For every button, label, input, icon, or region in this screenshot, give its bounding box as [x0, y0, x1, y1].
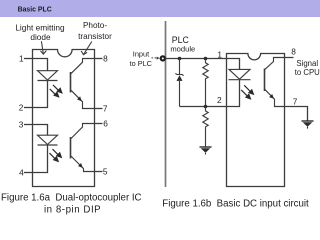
- svg-text:in 8-pin DIP: in 8-pin DIP: [44, 205, 101, 216]
- light arrows D2 to Q2: [50, 149, 62, 161]
- wire LED D1 cathode to pin2: [33, 81, 48, 108]
- svg-text:7: 7: [103, 103, 108, 113]
- wire LED D4 cathode to pin2: [227, 80, 240, 107]
- pin 5 stub and number: [95, 166, 108, 176]
- pin 8 stub and number: [95, 53, 109, 63]
- junction node A (zener tap): [178, 57, 182, 61]
- pin 7 stub and number: [95, 103, 108, 113]
- label: Photo-transistor: [78, 21, 112, 41]
- light arrows D1 to Q1: [50, 85, 62, 97]
- svg-text:7: 7: [293, 96, 298, 106]
- zener diode D3: [176, 59, 184, 107]
- svg-text:diode: diode: [30, 32, 51, 42]
- svg-text:Basic PLC: Basic PLC: [18, 7, 52, 14]
- dashed leader arrow to input terminal: [152, 57, 160, 60]
- svg-text:4: 4: [19, 167, 24, 177]
- svg-text:6: 6: [103, 118, 108, 128]
- phototransistor Q1: [71, 59, 95, 109]
- wire pin3 to LED D2 anode: [33, 125, 48, 136]
- ground G1: [200, 147, 212, 154]
- svg-text:1: 1: [19, 53, 24, 63]
- pin 3 stub and number: [19, 119, 33, 129]
- wire pin2 of U2 back to zener: [180, 106, 227, 108]
- svg-text:5: 5: [103, 166, 108, 176]
- resistor R1: [203, 59, 208, 107]
- ground G2: [302, 121, 314, 129]
- svg-text:to PLC: to PLC: [130, 59, 152, 68]
- svg-text:to CPU: to CPU: [295, 68, 320, 77]
- resistor R2: [203, 107, 208, 147]
- pin 2 stub and number: [19, 102, 33, 112]
- pin 1 stub and number: [19, 53, 33, 63]
- label: Input to PLC: [130, 50, 152, 69]
- svg-text:2: 2: [217, 95, 222, 105]
- IC U1 8-pin DIP outline with notch: [33, 50, 95, 187]
- leader arrow to phototransistor Q1: [81, 42, 92, 55]
- svg-text:Photo-: Photo-: [83, 21, 107, 30]
- pin 4 stub and number: [19, 167, 32, 177]
- svg-text:2: 2: [19, 102, 24, 112]
- svg-text:3: 3: [19, 119, 24, 129]
- LED D2: [38, 135, 58, 145]
- wire pin1 to LED D4 anode: [227, 59, 240, 70]
- svg-text:Figure 1.6b Basic DC input ci: Figure 1.6b Basic DC input circuit: [162, 199, 309, 210]
- light arrows D4 to Q3: [241, 85, 253, 99]
- LED D4: [229, 69, 251, 79]
- junction node C (R2 top): [204, 105, 208, 109]
- svg-text:Signal: Signal: [296, 59, 318, 68]
- leader arrow to LED D1: [41, 41, 47, 54]
- svg-text:1: 1: [217, 49, 222, 59]
- input terminal: [161, 56, 165, 60]
- svg-text:Figure 1.6a Dual-optocoupler: Figure 1.6a Dual-optocoupler IC: [1, 192, 142, 203]
- label: PLC module: [170, 35, 195, 54]
- IC U2 DIP outline with notch: [227, 54, 285, 187]
- svg-text:module: module: [170, 45, 195, 54]
- wire pin7 to ground G2: [285, 107, 308, 121]
- caption Figure 1.6a: [1, 192, 142, 215]
- label: Signal to CPU: [295, 59, 320, 77]
- wire LED D2 cathode to pin4: [33, 145, 48, 173]
- svg-text:Input: Input: [133, 50, 149, 59]
- slide title bar: [0, 0, 320, 17]
- wire input terminal to pin1 of U2: [165, 58, 226, 60]
- PLC module boundary line: [165, 21, 167, 187]
- wire pin1 to LED D1 anode: [33, 59, 48, 72]
- pin 6 stub and number: [95, 118, 109, 128]
- label: Light emitting diode: [15, 23, 65, 42]
- svg-text:8: 8: [103, 53, 108, 63]
- junction node B (R1 top): [204, 57, 208, 61]
- phototransistor Q3: [265, 58, 294, 107]
- svg-text:transistor: transistor: [78, 32, 112, 41]
- phototransistor Q2: [71, 124, 95, 172]
- svg-text:PLC: PLC: [172, 35, 190, 45]
- LED D1: [38, 71, 58, 81]
- svg-text:8: 8: [291, 47, 296, 57]
